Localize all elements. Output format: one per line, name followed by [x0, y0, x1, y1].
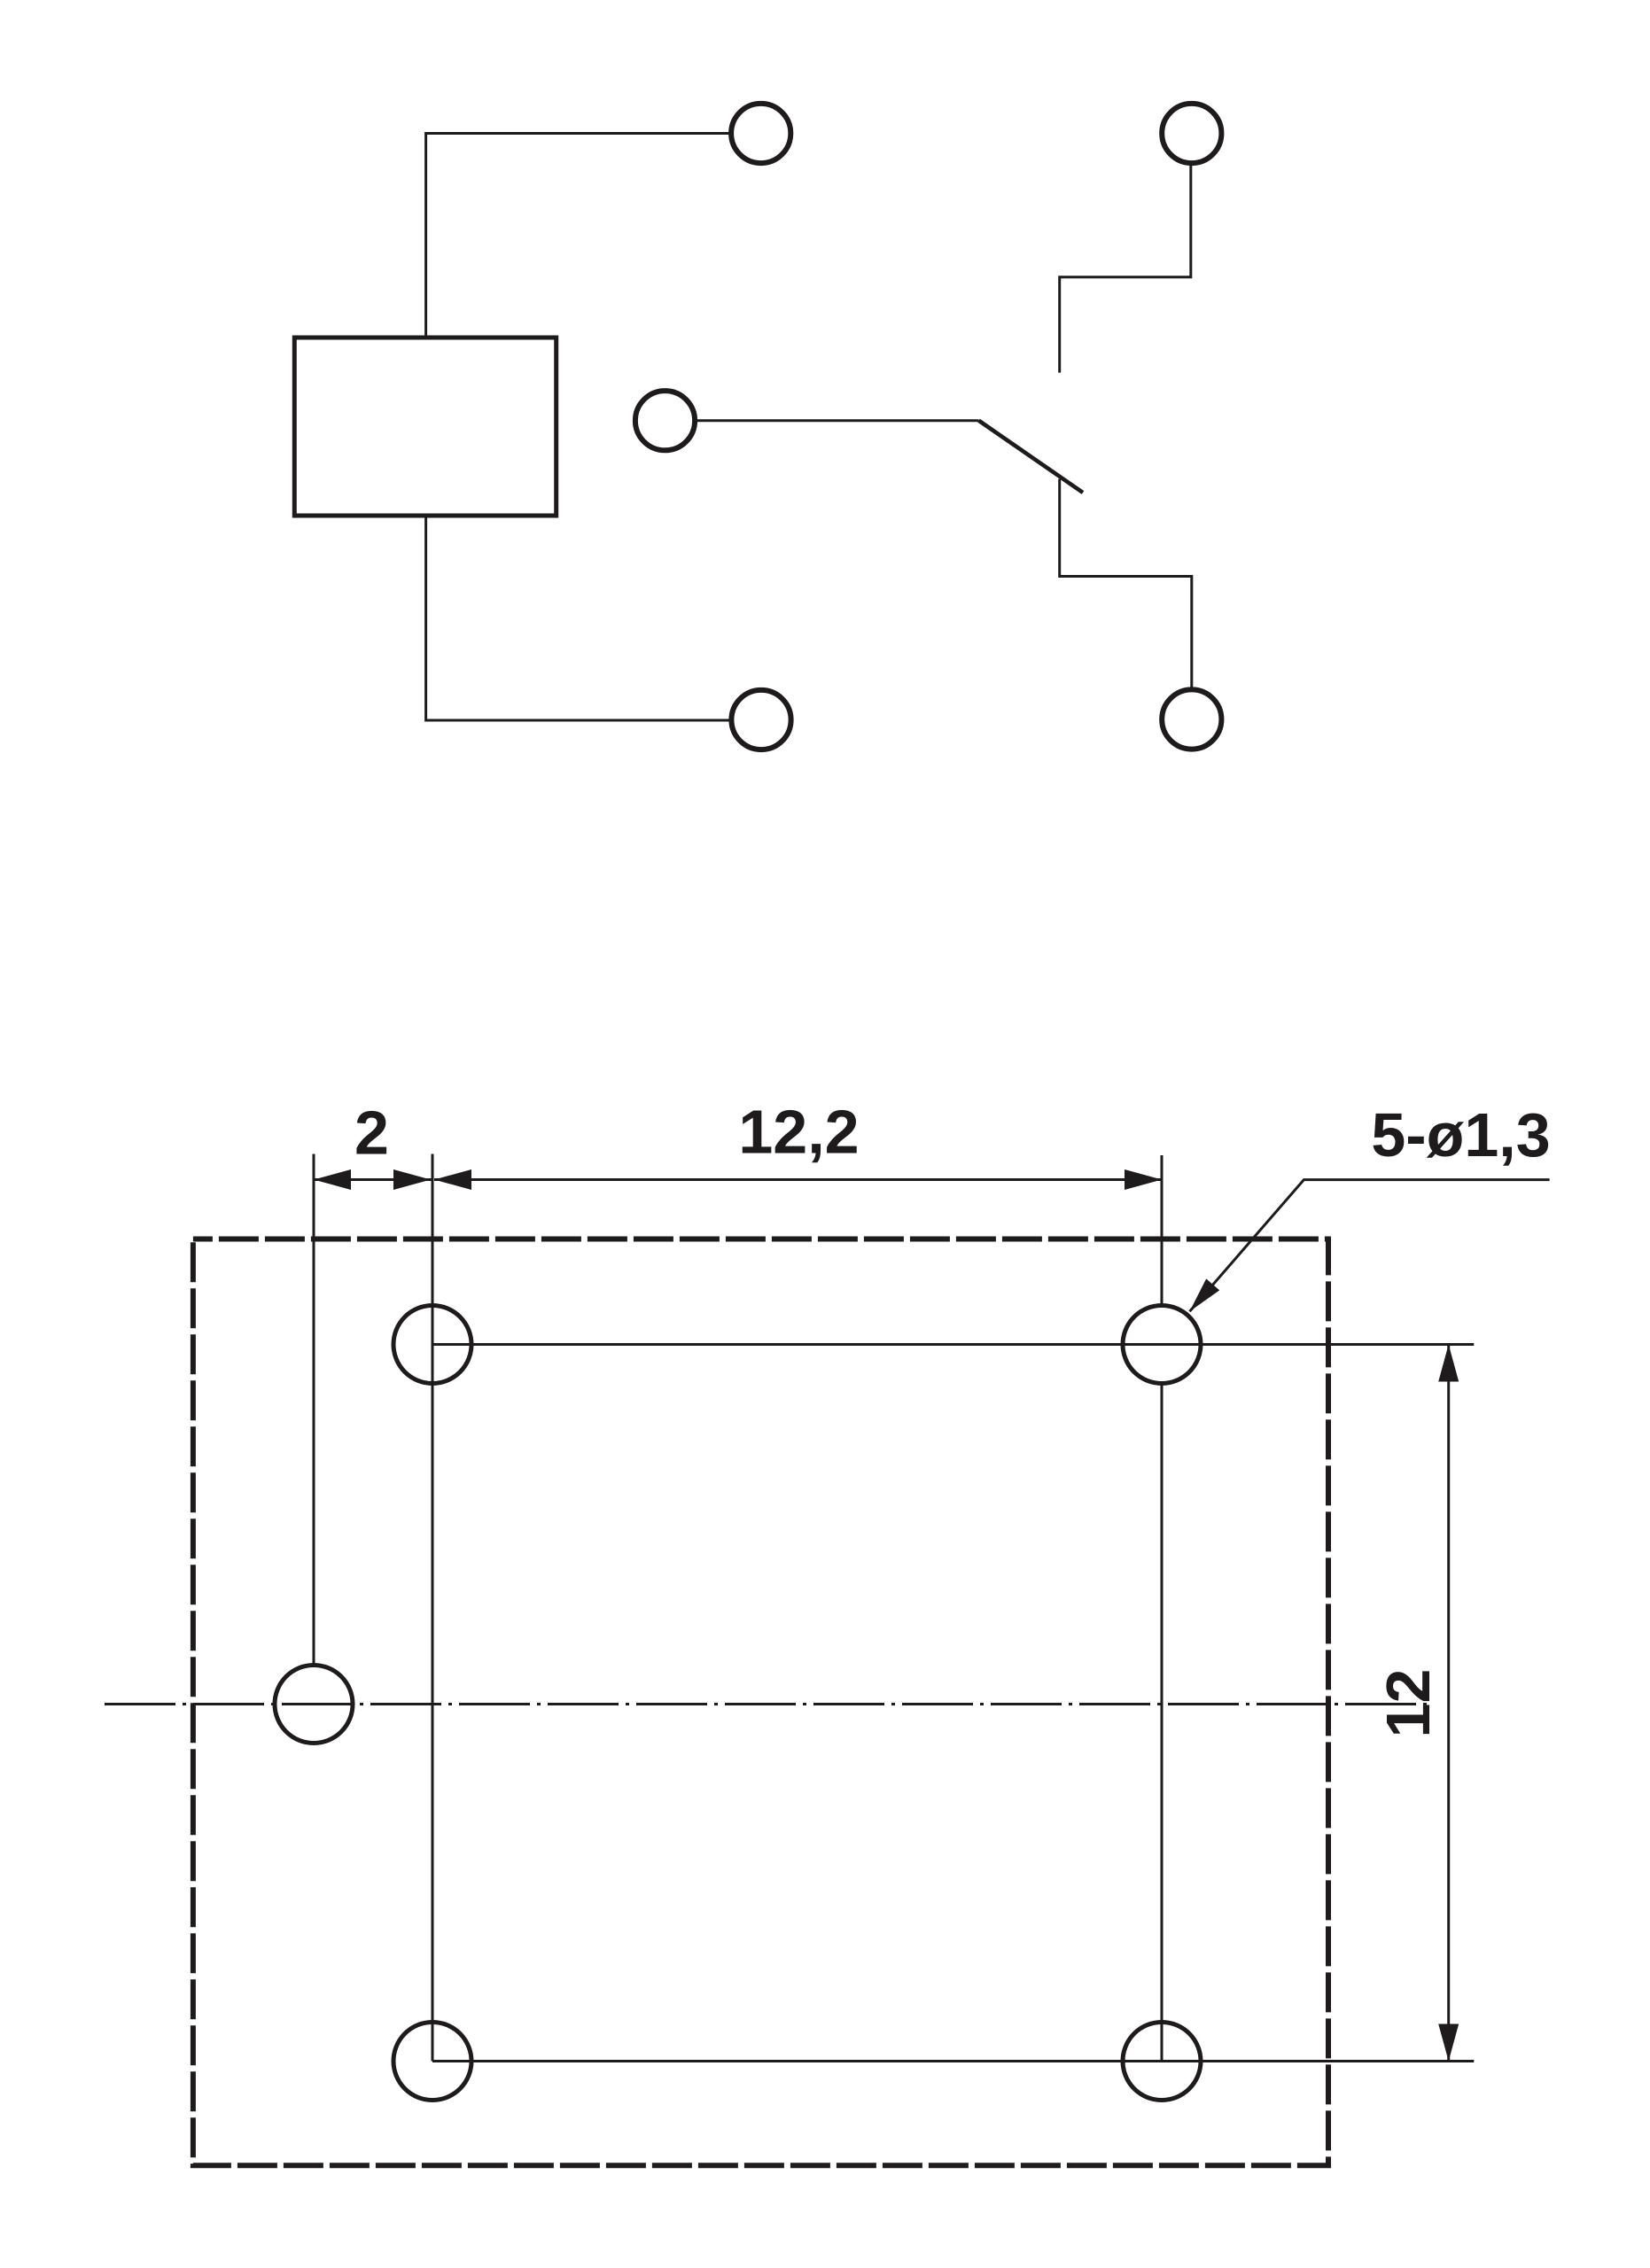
- svg-text:12,2: 12,2: [738, 1098, 859, 1167]
- wire NO contact (upper fixed contact): [1060, 166, 1191, 373]
- hole 4 bottom-left: [393, 2023, 471, 2101]
- dimension line 2: [314, 1178, 432, 1181]
- extension line left (through hole 5): [313, 1154, 315, 1666]
- dimension line 12 (vertical): [1447, 1345, 1450, 2062]
- hole 1 top-left: [393, 1306, 471, 1384]
- terminal pin circle coil top: [731, 104, 790, 163]
- wire coil top (pin 1): [426, 134, 729, 336]
- terminal pin circle NC: [1162, 689, 1221, 749]
- svg-text:5-ø1,3: 5-ø1,3: [1371, 1100, 1550, 1169]
- hole row link line top: [432, 1343, 1474, 1346]
- terminal pin circle coil bottom: [731, 690, 790, 750]
- wire NC contact (lower fixed contact): [1060, 479, 1192, 690]
- wire coil bottom (pin 2): [426, 518, 729, 721]
- PCB board outline (dashed): [193, 1239, 1328, 2166]
- dimension line 12,2: [434, 1178, 1162, 1181]
- arrowhead 2 right: [393, 1169, 431, 1190]
- extension line mid (through holes 1 and 4): [432, 1154, 434, 2062]
- hole row link line bottom: [432, 2060, 1474, 2062]
- relay coil K1: [294, 338, 556, 516]
- hole 2 top-right: [1123, 1306, 1201, 1384]
- leader arrowhead: [1190, 1278, 1220, 1311]
- switch blade (moving contact): [979, 421, 1084, 493]
- arrowhead 2 left: [314, 1169, 351, 1190]
- hole 3 bottom-right: [1123, 2023, 1201, 2101]
- center line (dash-dot): [105, 1703, 1431, 1705]
- terminal pin circle COM: [635, 391, 695, 450]
- svg-text:12: 12: [1374, 1669, 1443, 1738]
- wire COM to switch: [697, 419, 979, 422]
- arrowhead 12 top: [1438, 1345, 1459, 1382]
- arrowhead 12 bottom: [1438, 2024, 1459, 2062]
- hole 5 middle-left: [275, 1666, 353, 1744]
- svg-text:2: 2: [354, 1099, 389, 1168]
- leader line 5-d1,3: [1190, 1180, 1550, 1312]
- terminal pin circle NO: [1162, 104, 1221, 163]
- arrowhead 12,2 left: [434, 1169, 471, 1190]
- extension line right lower (hole 2 to hole 3): [1161, 1385, 1164, 2062]
- extension line right upper (to hole 2 edge): [1161, 1155, 1164, 1304]
- arrowhead 12,2 right: [1125, 1169, 1162, 1190]
